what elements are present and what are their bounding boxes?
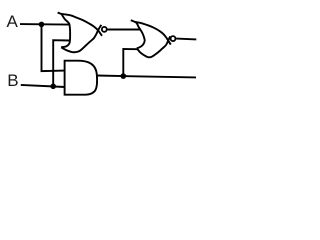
nor-gate U1 back arc stroke — [61, 14, 70, 47]
wire A input to NOR1 top input — [20, 23, 69, 26]
wire AND output to right edge — [97, 76, 196, 78]
svg-text:B: B — [7, 71, 18, 90]
nor-gate U1 white body fill — [61, 14, 98, 52]
wire NOR1 output to NOR2 top input — [108, 29, 141, 31]
wire B input to AND bottom input — [21, 85, 65, 87]
wire NOR2 output to right edge — [176, 38, 196, 41]
nor-gate U1 bubble — [102, 27, 107, 32]
wire B branch up to NOR1 bottom input — [53, 40, 69, 86]
junction on wire B — [50, 84, 56, 90]
wire A branch down to AND top input — [42, 24, 65, 71]
wire NOR2 bottom input from AND output junction — [123, 49, 138, 76]
nor-gate U2 bubble — [171, 36, 176, 41]
nor-gate U2 bottom fin stroke — [137, 36, 170, 57]
svg-text:A: A — [7, 12, 19, 31]
nor-gate U1 top stroke — [58, 13, 102, 36]
nor-gate U2 top stroke — [131, 20, 171, 44]
and-gate U3 body — [65, 61, 98, 95]
nor-gate U1 bottom fin stroke — [61, 25, 101, 52]
nor-gate U2 back arc stroke — [136, 22, 145, 48]
junction on AND output wire — [121, 73, 127, 79]
junction on wire A — [39, 22, 45, 28]
nor-gate U2 white body fill — [136, 22, 168, 57]
